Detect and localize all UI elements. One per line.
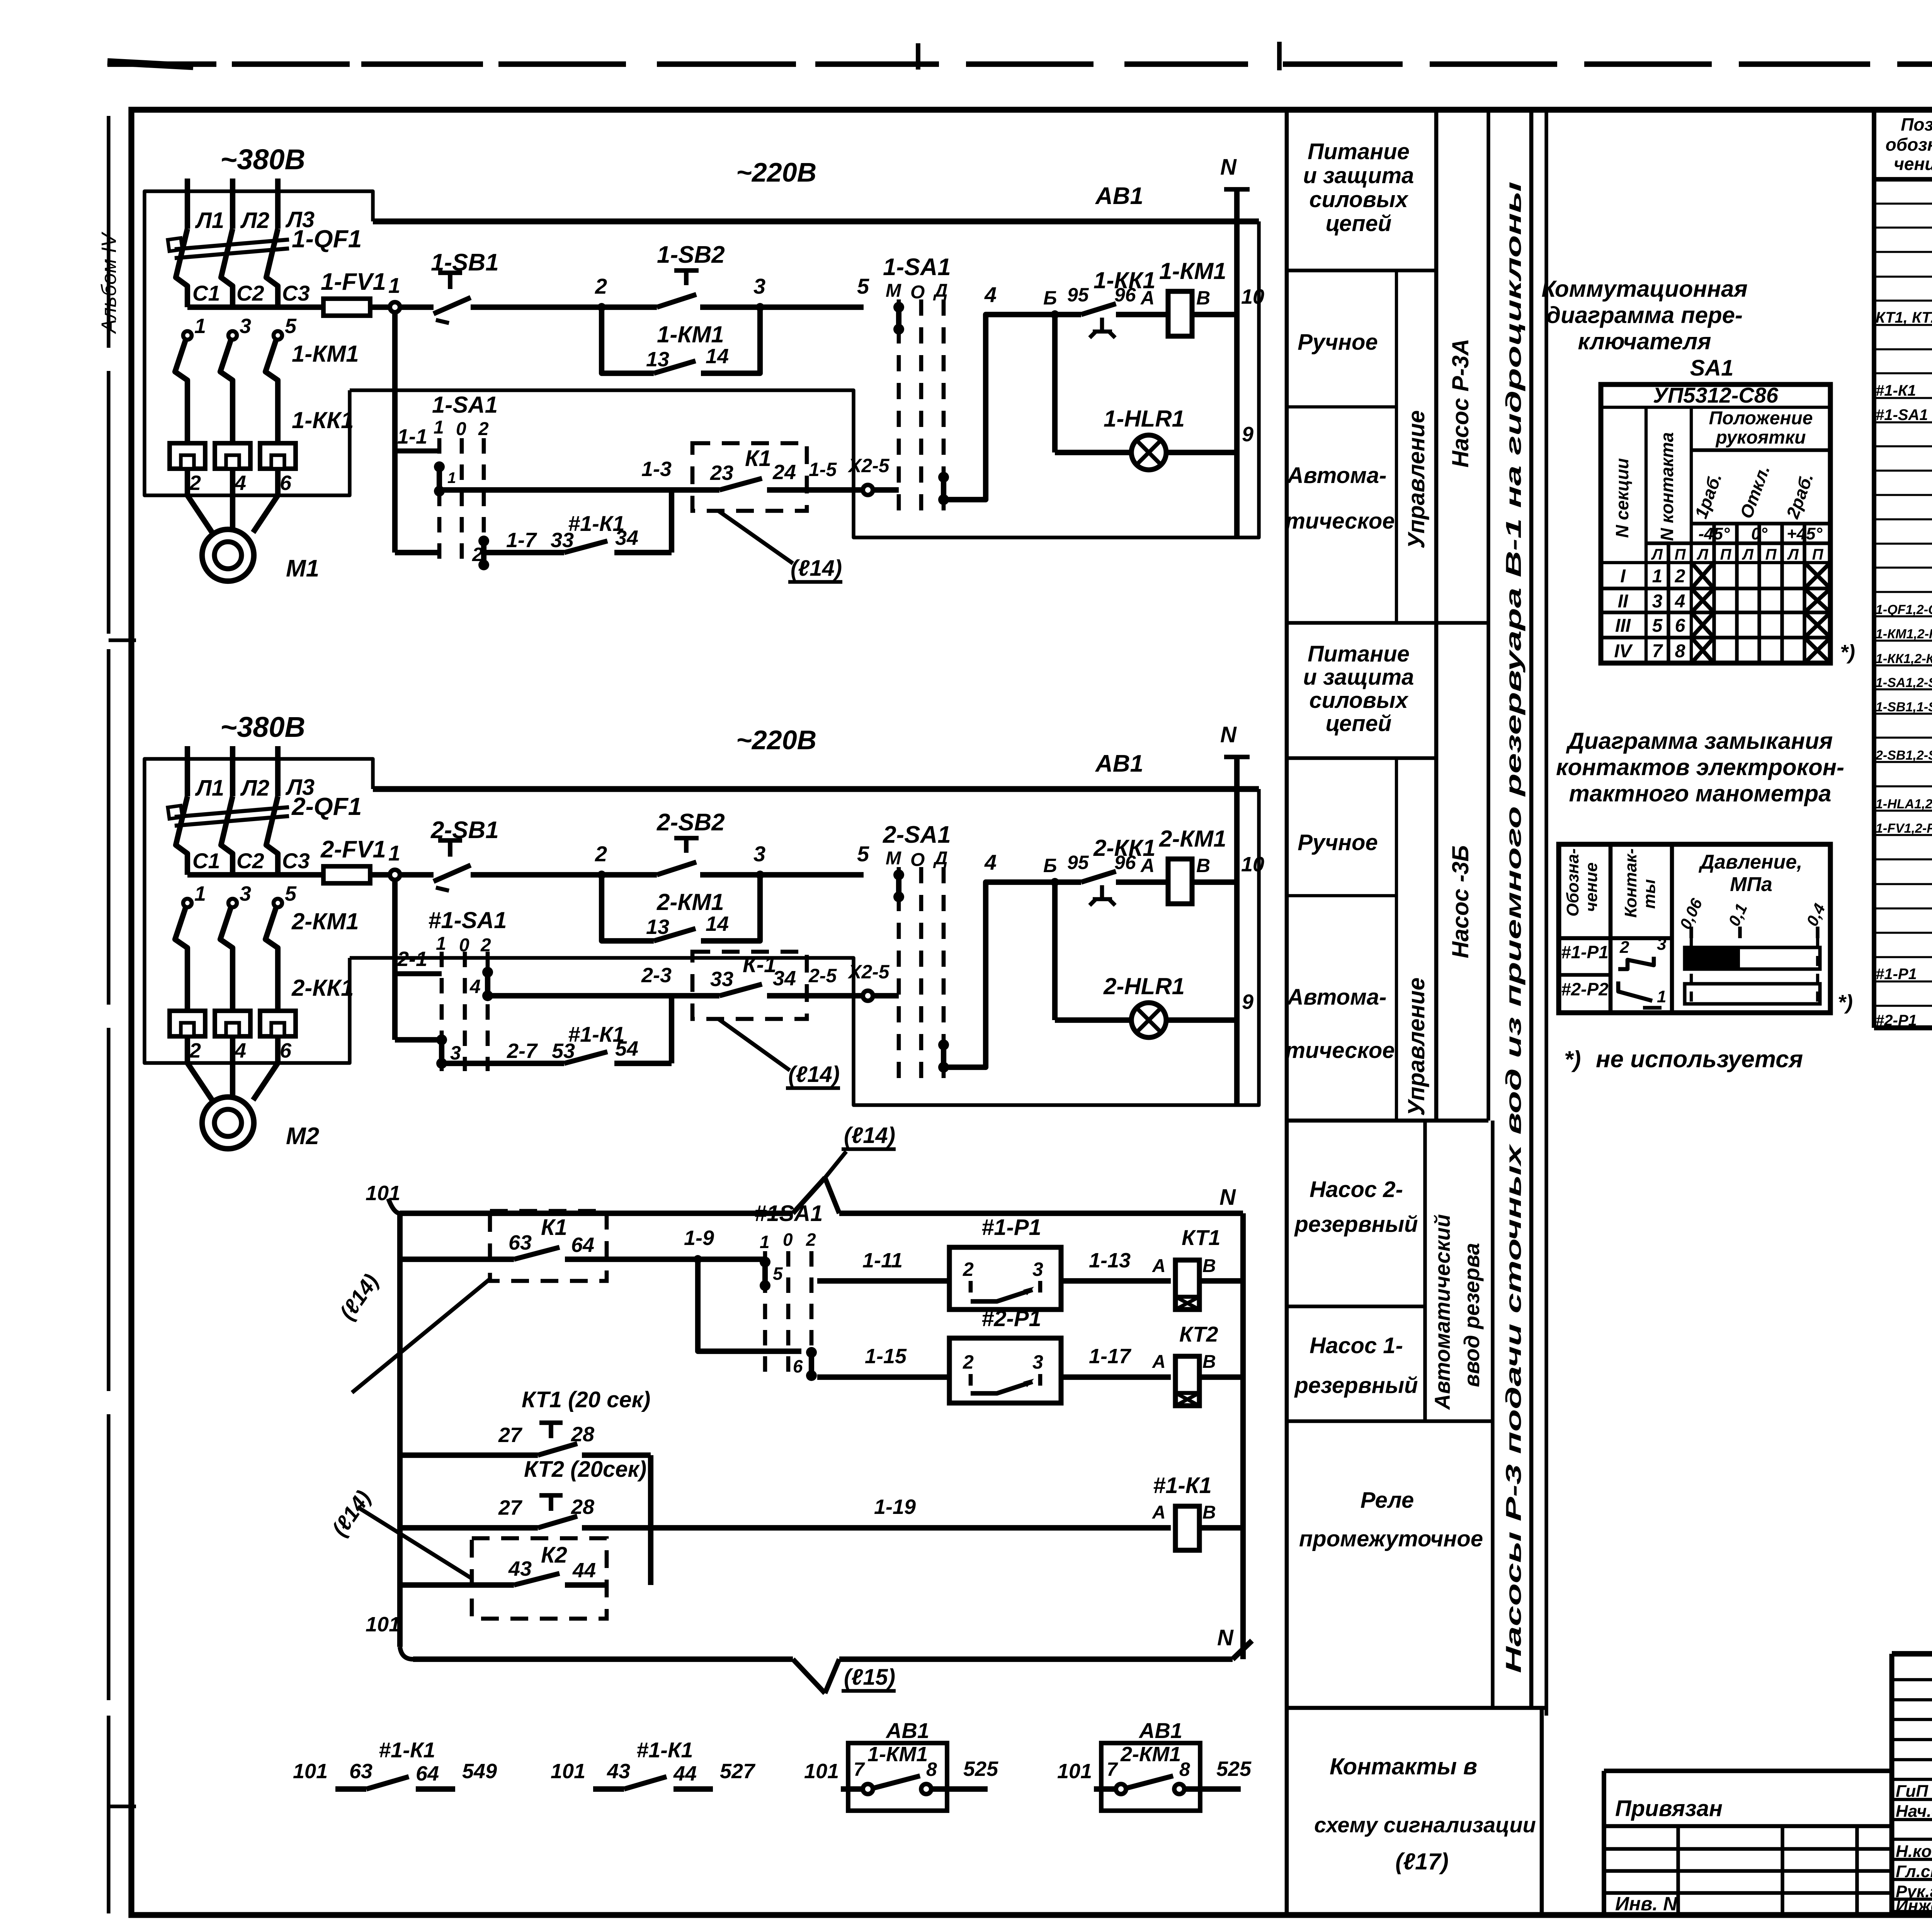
parts row: push button [1876,690,1932,716]
parts row: thermal relay [1876,642,1932,668]
svg-text:7: 7 [854,1759,865,1780]
svg-text:резервный: резервный [1294,1373,1418,1398]
svg-text:10: 10 [1241,285,1264,308]
svg-text:5: 5 [285,882,297,905]
sheet top fold dashed line [107,62,1932,66]
holding contact 1-KM1 13-14 [602,307,760,373]
signal contact 1-KM1 7-8 [804,1718,998,1811]
svg-text:43: 43 [508,1557,532,1580]
svg-text:тическое: тическое [1285,509,1395,534]
left outer sheet edge dashed line [109,116,136,1913]
parts row: push button 2 [1875,748,1932,763]
label: pump 2 standby [1294,1177,1418,1237]
svg-text:1-КК1: 1-КК1 [292,407,354,433]
svg-text:Гл.спец: Гл.спец [1896,1862,1932,1881]
svg-text:чение: чение [1582,862,1601,912]
svg-text:Н.контр: Н.контр [1896,1842,1932,1861]
svg-text:(ℓ14): (ℓ14) [844,1123,895,1148]
svg-text:Автома-: Автома- [1287,463,1387,488]
svg-text:N: N [1217,1625,1234,1650]
svg-text:1-SА1,2-SА1: 1-SА1,2-SА1 [1876,675,1932,690]
svg-text:цепей: цепей [1326,211,1392,236]
svg-text:схему сигнализации: схему сигнализации [1314,1813,1536,1837]
note L14 pump 2 [718,1019,840,1088]
svg-text:5: 5 [285,315,297,338]
signal contact #1-K1 63-64 [293,1738,497,1789]
svg-text:I: I [1620,566,1626,587]
svg-text:~220В: ~220В [736,157,816,187]
svg-text:КТ1, КТ2: КТ1, КТ2 [1876,309,1932,326]
thermal relay contact 1-KK1 [1043,267,1168,338]
stop button 2-SB1 [400,817,602,891]
svg-text:1-11: 1-11 [862,1249,903,1272]
relay contact #1-K1 33-34 [484,490,672,553]
svg-text:44: 44 [572,1559,596,1582]
svg-text:Контак-: Контак- [1621,849,1640,918]
wire 1-13 [1061,1249,1171,1281]
svg-text:2-КМ1: 2-КМ1 [656,889,724,915]
svg-text:1-SВ1,1-SВ2: 1-SВ1,1-SВ2 [1876,700,1932,714]
svg-text:3: 3 [1652,591,1663,612]
svg-text:Давление,: Давление, [1698,851,1802,873]
svg-text:6: 6 [280,1039,292,1062]
svg-text:обозна-: обозна- [1886,134,1932,155]
svg-text:Коммутационная: Коммутационная [1541,276,1747,302]
svg-text:М2: М2 [286,1123,319,1150]
svg-text:1-FV1: 1-FV1 [321,269,386,295]
svg-text:А: А [1152,1256,1166,1276]
svg-text:Положение: Положение [1709,408,1813,429]
svg-text:N: N [1220,722,1237,747]
svg-text:#2-Р1: #2-Р1 [981,1306,1041,1331]
sheet top fold tick marks [918,42,1279,70]
motor М1 [187,495,319,582]
parts row: manometer line 1 [1876,961,1932,984]
circuit breaker 1-QF1 [168,225,362,307]
svg-text:#1-SА1: #1-SА1 [1876,406,1928,423]
svg-text:Поз.: Поз. [1901,114,1932,134]
signal contact #1-K1 43-44 [551,1738,756,1789]
svg-text:Б: Б [1043,287,1057,309]
svg-text:#1SА1: #1SА1 [754,1201,823,1226]
control bus 220V pump 1 [373,157,1259,221]
node 3 pump 2 [753,842,765,879]
svg-text:(ℓ14): (ℓ14) [788,1062,840,1087]
svg-text:ввод резерва: ввод резерва [1459,1243,1484,1387]
svg-text:1-FV1,2-FV1: 1-FV1,2-FV1 [1876,821,1932,836]
svg-text:ГиП: ГиП [1896,1782,1929,1801]
svg-text:П: П [1812,546,1824,563]
svg-text:13: 13 [646,348,669,371]
svg-text:95: 95 [1067,284,1089,306]
svg-text:#2-Р1: #2-Р1 [1876,1012,1917,1029]
svg-text:Питание: Питание [1308,139,1410,164]
svg-text:1-КМ1: 1-КМ1 [1159,258,1226,284]
wire fuse to node 1 pump 1 [370,304,390,310]
svg-text:С2: С2 [236,849,264,873]
svg-text:4: 4 [234,1039,246,1062]
svg-text:Х2-5: Х2-5 [847,455,890,476]
svg-text:1-КМ1: 1-КМ1 [292,341,359,367]
cabinet outline AB1 pump 2 [145,759,1259,1105]
svg-text:Л2: Л2 [240,208,269,233]
svg-text:2: 2 [963,1259,974,1280]
svg-text:#1-SА1: #1-SА1 [428,907,507,933]
parts row: #1-K1 relay PE-37 [1876,374,1932,400]
svg-text:28: 28 [571,1495,594,1519]
svg-text:2: 2 [472,544,483,565]
svg-text:Ручное: Ручное [1298,330,1378,355]
svg-text:101: 101 [551,1760,585,1783]
parts table header [1886,114,1932,174]
svg-text:1-КК1,2-КК1: 1-КК1,2-КК1 [1876,651,1932,666]
svg-text:1: 1 [388,841,400,865]
svg-text:2-5: 2-5 [808,965,837,986]
svg-text:2-КК1: 2-КК1 [291,975,354,1001]
node 2 pump 2 [595,842,607,879]
note L14 rotated pointer upper [335,1269,490,1393]
svg-text:2-HLR1: 2-HLR1 [1103,973,1185,999]
time relay coil KT2 [1175,1322,1243,1406]
svg-text:8: 8 [1675,641,1685,662]
wire 1-17 [1061,1345,1171,1377]
svg-text:(ℓ15): (ℓ15) [844,1665,895,1690]
svg-text:1-SА1: 1-SА1 [883,254,951,281]
parts list table [1874,110,1932,1028]
svg-text:2: 2 [189,1039,201,1062]
AC 380V supply label pump 1 [220,143,305,175]
svg-text:К1: К1 [541,1215,567,1240]
svg-text:4: 4 [234,471,246,495]
svg-text:Д: Д [933,848,948,869]
svg-text:9: 9 [1242,423,1253,446]
svg-text:6: 6 [793,1356,803,1376]
svg-text:М: М [886,848,901,869]
svg-text:28: 28 [571,1423,594,1446]
svg-text:4: 4 [984,850,997,874]
label: automatic standby switching [1430,1214,1484,1410]
svg-text:5: 5 [857,274,869,298]
fuse 2-FV1 [320,836,386,883]
svg-text:27: 27 [498,1496,523,1519]
svg-text:КТ2 (20сек): КТ2 (20сек) [524,1457,646,1482]
svg-text:5: 5 [857,842,869,866]
svg-text:2-QF1: 2-QF1 [291,793,362,820]
svg-text:2-КК1: 2-КК1 [1093,835,1156,861]
node 3 pump 1 [753,274,765,311]
pressure gauge contact #2-P1 [949,1306,1061,1403]
svg-text:3: 3 [753,274,765,298]
svg-text:Диаграмма замыкания: Диаграмма замыкания [1566,728,1833,754]
svg-text:1: 1 [434,417,444,438]
svg-text:23: 23 [710,461,733,485]
phase line L3 pump 2 [278,746,315,800]
svg-text:#1-К1: #1-К1 [1153,1473,1212,1498]
contactor coil 2-KM1 [1159,826,1264,904]
svg-text:27: 27 [498,1423,523,1447]
svg-text:N: N [1220,155,1237,180]
svg-text:Х2-5: Х2-5 [847,961,890,983]
svg-text:4: 4 [469,976,481,997]
svg-text:промежуточное: промежуточное [1299,1526,1483,1551]
svg-text:УП5312-С86: УП5312-С86 [1653,383,1779,407]
svg-text:К1: К1 [745,446,771,471]
svg-text:64: 64 [416,1762,439,1785]
svg-text:контактов электрокон-: контактов электрокон- [1556,754,1844,780]
svg-text:6: 6 [1675,616,1685,636]
svg-text:А: А [1152,1352,1166,1372]
svg-text:8: 8 [1179,1759,1190,1780]
signal lamp 1-HLR1 [1055,315,1253,470]
selector switch 2-SA1 [883,821,951,1085]
svg-text:КТ2: КТ2 [1179,1322,1218,1346]
thermal relay contact 2-KK1 [1043,835,1168,905]
svg-text:АВ1: АВ1 [1095,183,1143,209]
svg-text:Обозна-: Обозна- [1563,849,1582,917]
svg-text:1-13: 1-13 [1089,1249,1131,1272]
svg-text:резервный: резервный [1294,1212,1418,1237]
start button 2-SB2 [602,809,760,875]
svg-text:2-КМ1: 2-КМ1 [1120,1743,1181,1766]
svg-text:АВ1: АВ1 [1095,750,1143,777]
svg-text:*): *) [1838,991,1853,1014]
svg-text:549: 549 [462,1760,497,1783]
svg-text:1-5: 1-5 [809,459,837,480]
svg-text:С1: С1 [192,281,220,305]
svg-text:~380В: ~380В [220,711,305,743]
svg-text:2-SА1: 2-SА1 [883,821,951,848]
svg-text:2: 2 [595,842,607,866]
main contacts 1-KM1 [175,315,359,443]
AC 380V supply label pump 2 [220,711,305,743]
wire node 3 to node 5 pump 1 [760,274,869,307]
label: automatic pump 2 [1285,985,1395,1063]
svg-text:Автоматический: Автоматический [1430,1214,1454,1410]
parts row: signal fitting [1876,787,1932,813]
parts row: automatic breaker [1876,593,1932,619]
svg-text:#1-Р1: #1-Р1 [1876,966,1917,983]
svg-text:1-HLR1: 1-HLR1 [1104,406,1185,432]
svg-text:Л1: Л1 [195,776,224,801]
time relay coil KT1 [1175,1225,1243,1310]
svg-text:Управление: Управление [1403,410,1429,549]
svg-text:#1-К1: #1-К1 [379,1738,435,1762]
svg-text:С1: С1 [192,849,220,873]
svg-text:1-SВ1: 1-SВ1 [431,249,499,276]
label: automatic pump 1 [1285,463,1395,534]
svg-text:2: 2 [963,1351,974,1373]
svg-text:М1: М1 [286,555,319,582]
svg-text:*): *) [1564,1046,1581,1072]
svg-text:#1-Р1: #1-Р1 [981,1215,1041,1240]
svg-text:7: 7 [1652,641,1663,662]
selector #1SA1 standby section [754,1201,823,1381]
svg-text:527: 527 [720,1760,756,1783]
svg-text:(ℓ17): (ℓ17) [1395,1849,1449,1874]
thermal relay heaters 2-KK1 [170,975,354,1063]
svg-text:Насос -3Б: Насос -3Б [1447,845,1473,958]
svg-text:Автома-: Автома- [1287,985,1387,1010]
time relay contact KT2 27-28 [400,1457,1171,1528]
svg-text:1: 1 [194,882,206,905]
svg-text:Насос 1-: Насос 1- [1310,1333,1403,1358]
svg-text:0: 0 [456,419,466,439]
label: contacts to signalling circuit [1314,1753,1536,1874]
svg-text:Насос Р-3А: Насос Р-3А [1447,339,1473,468]
phase bus C1 C2 C3 pump 2 [187,849,323,875]
signal contact 2-KM1 7-8 [1057,1718,1252,1811]
contactor coil 1-KM1 [1159,258,1264,336]
svg-text:2: 2 [478,419,489,439]
svg-text:Привязан: Привязан [1615,1796,1723,1821]
svg-text:101: 101 [1057,1760,1092,1783]
function label column grid [1287,110,1546,1915]
svg-text:7: 7 [1107,1759,1118,1780]
svg-text:9: 9 [1242,990,1253,1014]
node 1 pump 1 [388,273,400,312]
label: pump 1 standby [1294,1333,1418,1398]
switch commutation diagram title [1541,276,1747,381]
svg-text:тактного манометра: тактного манометра [1569,781,1832,806]
svg-text:2-SВ1: 2-SВ1 [430,817,499,844]
phase line L3 pump 1 [278,179,315,232]
svg-text:С2: С2 [236,281,264,305]
selector 1-SA1 auto-manual section [395,312,498,560]
svg-text:5: 5 [773,1264,783,1284]
svg-text:1-3: 1-3 [641,457,672,481]
pressure gauge contact #1-P1 [949,1215,1061,1310]
parts row: manometer line 2 [1876,1004,1932,1030]
relay contact #1-K1 53-54 pump 2 [442,996,672,1063]
svg-text:чение: чение [1894,154,1932,174]
svg-text:Реле: Реле [1361,1488,1414,1513]
svg-text:1-HLА1,2-HLА1: 1-HLА1,2-HLА1 [1876,797,1932,811]
svg-text:1-КК1: 1-КК1 [1094,267,1156,293]
svg-text:Контакты в: Контакты в [1330,1753,1477,1779]
note L14 pointer to bus 101 [825,1123,896,1178]
svg-text:13: 13 [646,915,669,939]
svg-text:диаграмма пере-: диаграмма пере- [1546,302,1743,328]
svg-text:1-SВ2: 1-SВ2 [657,241,725,268]
node 2 pump 1 [595,274,607,311]
svg-text:тическое: тическое [1285,1038,1395,1063]
parallel connection rail [648,1455,653,1585]
svg-text:6: 6 [280,471,292,495]
svg-text:Л: Л [1787,546,1799,563]
svg-text:5: 5 [1652,616,1663,636]
svg-text:10: 10 [1241,853,1264,876]
svg-text:АВ1: АВ1 [885,1718,929,1743]
attachment strip [1604,1771,1892,1915]
svg-text:N секции: N секции [1612,458,1632,538]
svg-text:В: В [1196,287,1210,309]
svg-text:Д: Д [933,281,948,301]
svg-text:#1-Р1: #1-Р1 [1561,942,1609,962]
relay contact K1 63-64 (remote) standby start [400,1211,607,1281]
svg-text:IV: IV [1614,641,1633,662]
neutral line N pump 2 [1220,722,1250,1105]
svg-text:101: 101 [804,1760,839,1783]
parts row: selector switch [1876,666,1932,692]
svg-text:2: 2 [1675,566,1685,587]
svg-text:4: 4 [984,282,997,307]
svg-text:63: 63 [349,1760,372,1783]
switch commutation diagram table [1601,383,1855,664]
svg-text:#2-Р2: #2-Р2 [1561,979,1609,999]
svg-text:~220В: ~220В [736,725,816,755]
svg-text:~380В: ~380В [220,143,305,175]
svg-text:*): *) [1840,641,1855,664]
bus 101 bottom [366,1613,1252,1693]
svg-text:П: П [1720,546,1732,563]
svg-text:95: 95 [1067,852,1089,873]
svg-text:2-SВ1,2-SВ2: 2-SВ1,2-SВ2 [1875,748,1932,763]
svg-text:Л: Л [1742,546,1754,563]
svg-text:силовых: силовых [1309,187,1409,212]
svg-text:1-КМ1: 1-КМ1 [657,321,724,347]
svg-text:М: М [886,281,901,301]
svg-text:2-FV1: 2-FV1 [320,836,386,863]
start button 1-SB2 [602,241,760,307]
circuit breaker 2-QF1 [168,793,362,875]
svg-text:24: 24 [772,461,796,484]
svg-text:рукоятки: рукоятки [1715,427,1806,448]
svg-text:Альбом IV: Альбом IV [97,231,121,334]
phase line L2 pump 2 [233,746,269,801]
bus 101 left rail [397,1213,403,1647]
svg-text:1-7: 1-7 [506,529,537,552]
label: intermediate relay [1299,1488,1483,1551]
svg-text:С3: С3 [282,281,310,305]
svg-text:ключателя: ключателя [1578,328,1711,354]
neutral line N pump 1 [1220,155,1250,537]
parts row: #1-SA1 universal switch [1876,399,1932,425]
svg-text:1: 1 [194,315,206,338]
svg-text:44: 44 [673,1762,697,1785]
svg-text:1-QF1: 1-QF1 [292,225,362,253]
parts row: fuse [1876,811,1932,837]
svg-text:101: 101 [366,1613,400,1636]
svg-text:2: 2 [595,274,607,298]
label: power supply and protection pump 2 [1303,641,1414,736]
title block grid [1892,1654,1932,1913]
svg-text:Л: Л [1651,546,1663,563]
svg-text:34: 34 [773,967,796,990]
svg-text:2-7: 2-7 [507,1039,538,1063]
svg-text:525: 525 [1216,1757,1252,1781]
svg-text:Насос 2-: Насос 2- [1310,1177,1403,1202]
svg-text:3: 3 [1032,1259,1043,1280]
parts row: KT1 KT2 combined time relay [1876,305,1932,327]
svg-text:2-3: 2-3 [641,964,672,987]
wire fuse to node 1 pump 2 [370,872,390,878]
svg-text:63: 63 [509,1231,532,1254]
svg-text:П: П [1765,546,1777,563]
svg-text:Л2: Л2 [240,776,269,801]
svg-text:3: 3 [240,882,251,905]
svg-text:1-QF1,2-QF1: 1-QF1,2-QF1 [1876,602,1932,617]
signal lamp 2-HLR1 [1055,882,1253,1037]
manometer contacts diagram title [1556,728,1844,806]
svg-text:К-1: К-1 [743,952,776,977]
stop button 1-SB1 [400,249,602,323]
relay contact K-1 33-34 (remote) pump 2 [672,952,807,1019]
svg-text:SА1: SА1 [1690,355,1734,381]
wire 1-5 to terminal X2-5 [807,455,899,495]
svg-text:Л1: Л1 [195,208,224,233]
svg-text:3: 3 [753,842,765,866]
cabinet outline AB1 pump 1 [145,191,1259,537]
